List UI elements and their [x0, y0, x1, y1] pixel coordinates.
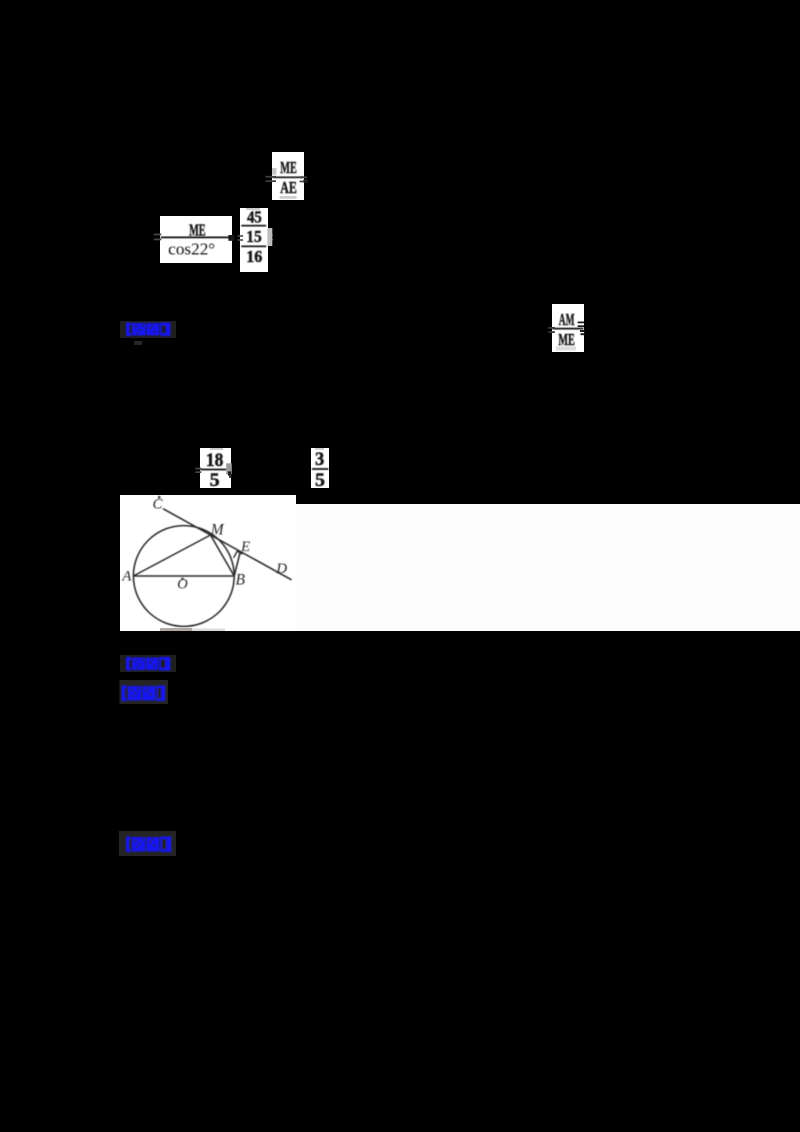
svg-text:ME: ME: [280, 158, 297, 177]
svg-text:15: 15: [246, 227, 262, 246]
svg-text:ME: ME: [558, 330, 575, 349]
svg-text:E: E: [240, 539, 250, 555]
svg-text:AE: AE: [280, 178, 297, 197]
svg-text:cos22°: cos22°: [168, 240, 215, 259]
svg-text:A: A: [121, 569, 132, 585]
svg-text:3: 3: [315, 449, 324, 470]
svg-text:M: M: [210, 522, 225, 539]
svg-text:ME: ME: [189, 220, 206, 239]
svg-text:18: 18: [206, 450, 224, 471]
svg-text:C: C: [153, 497, 164, 513]
svg-text:AM: AM: [559, 310, 575, 329]
svg-text:D: D: [275, 561, 287, 577]
svg-text:5: 5: [210, 470, 220, 491]
svg-text:16: 16: [246, 247, 262, 266]
svg-text:5: 5: [315, 470, 325, 491]
svg-text:B: B: [236, 571, 246, 588]
svg-text:O: O: [177, 576, 188, 592]
svg-text:45: 45: [247, 207, 262, 226]
